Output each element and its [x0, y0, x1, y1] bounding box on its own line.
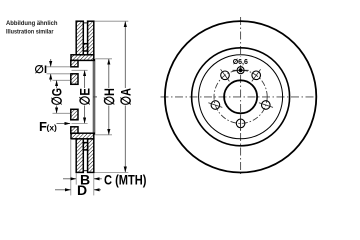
svg-text:∅A: ∅A [117, 88, 133, 106]
svg-text:Ø6,6: Ø6,6 [233, 59, 248, 66]
svg-text:∅H: ∅H [101, 88, 117, 106]
svg-text:∅G: ∅G [49, 88, 65, 106]
svg-text:Abbildung ähnlich: Abbildung ähnlich [6, 20, 58, 27]
svg-text:D: D [77, 182, 87, 198]
svg-text:C (MTH): C (MTH) [104, 171, 147, 187]
svg-text:Illustration similar: Illustration similar [6, 29, 54, 36]
svg-text:∅E: ∅E [77, 88, 93, 106]
svg-text:∅I: ∅I [34, 64, 47, 76]
svg-text:(x): (x) [47, 123, 58, 133]
